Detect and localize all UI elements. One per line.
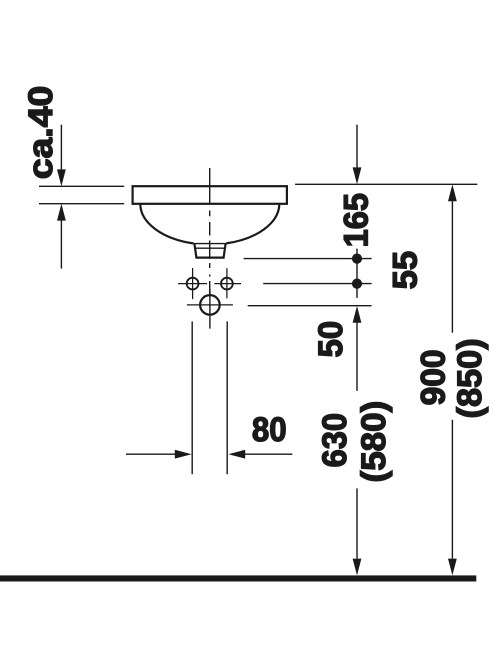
svg-text:ca.40: ca.40 [22, 86, 60, 180]
svg-text:630: 630 [316, 413, 354, 467]
svg-text:900: 900 [415, 349, 453, 405]
svg-text:55: 55 [386, 251, 424, 290]
svg-text:50: 50 [312, 321, 350, 358]
svg-text:(850): (850) [451, 338, 489, 418]
svg-text:165: 165 [338, 193, 376, 247]
svg-text:80: 80 [252, 411, 287, 449]
svg-text:(580): (580) [355, 401, 393, 483]
